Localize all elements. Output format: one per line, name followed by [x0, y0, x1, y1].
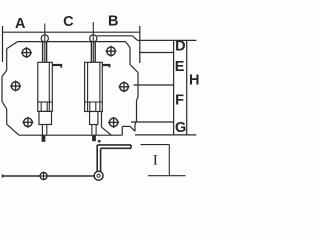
svg-text:I: I — [153, 152, 158, 168]
svg-text:B: B — [108, 13, 118, 29]
svg-text:H: H — [189, 73, 199, 89]
svg-text:D: D — [175, 39, 185, 55]
svg-text:E: E — [175, 59, 185, 75]
svg-text:C: C — [63, 14, 74, 30]
svg-text:F: F — [175, 93, 184, 109]
svg-text:G: G — [175, 120, 186, 136]
svg-text:A: A — [15, 16, 26, 32]
